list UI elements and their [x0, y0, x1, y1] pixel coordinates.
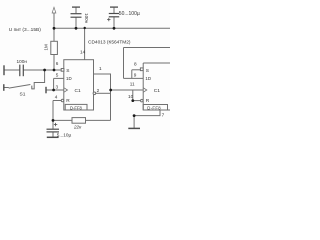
svg-text:100н: 100н — [17, 59, 28, 64]
svg-text:C1: C1 — [75, 88, 81, 94]
svg-text:D-FF8: D-FF8 — [147, 105, 161, 110]
svg-text:14: 14 — [80, 50, 86, 55]
svg-text:C1: C1 — [154, 88, 160, 94]
svg-text:1D: 1D — [145, 76, 151, 81]
svg-text:5: 5 — [56, 73, 59, 78]
svg-text:U пит (3...15В): U пит (3...15В) — [9, 27, 41, 33]
svg-text:1: 1 — [99, 66, 102, 71]
svg-text:4: 4 — [55, 95, 58, 100]
svg-text:D-FF8: D-FF8 — [70, 105, 83, 110]
svg-text:CD4013 (К564ТМ2): CD4013 (К564ТМ2) — [88, 40, 131, 46]
svg-text:S: S — [66, 68, 69, 74]
svg-text:9: 9 — [134, 73, 137, 78]
svg-text:3: 3 — [56, 84, 59, 89]
svg-text:1М: 1М — [44, 44, 49, 51]
svg-text:S1: S1 — [20, 91, 26, 97]
svg-text:2: 2 — [97, 88, 100, 93]
svg-text:S: S — [146, 68, 149, 74]
svg-text:50...100µ: 50...100µ — [119, 11, 140, 17]
svg-text:22к: 22к — [73, 124, 82, 129]
svg-text:R: R — [146, 98, 150, 104]
svg-text:10: 10 — [128, 94, 134, 99]
svg-text:7: 7 — [162, 113, 165, 118]
svg-text:100н: 100н — [84, 13, 89, 24]
svg-text:1D: 1D — [66, 76, 72, 81]
svg-text:5...10µ: 5...10µ — [57, 132, 72, 137]
svg-text:R: R — [66, 98, 70, 104]
svg-text:8: 8 — [134, 62, 137, 67]
svg-text:6: 6 — [56, 61, 59, 66]
svg-text:11: 11 — [130, 82, 135, 87]
